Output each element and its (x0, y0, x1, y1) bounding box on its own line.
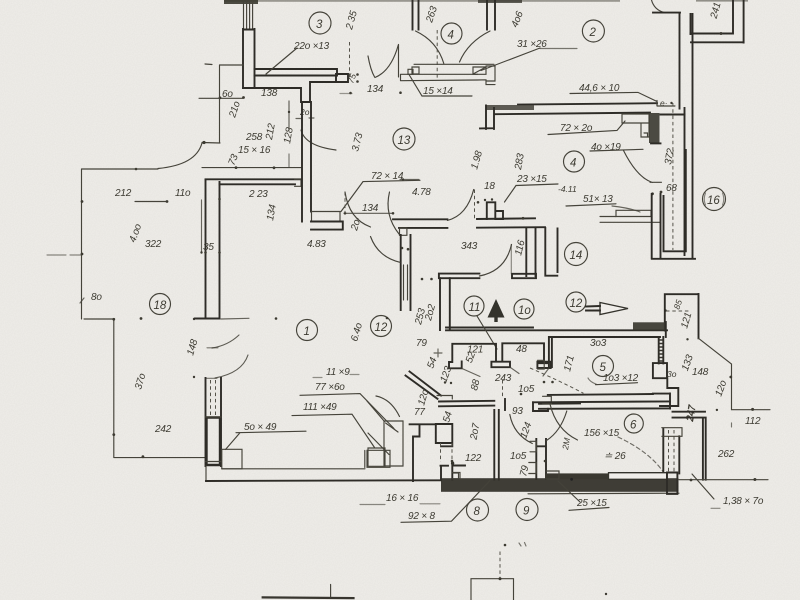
svg-text:1: 1 (304, 326, 310, 338)
dim dots at y93 (340, 91, 402, 94)
wall: room6 east window (662, 428, 682, 474)
room circle 8 (467, 499, 489, 521)
wall: room18 north band (206, 179, 302, 186)
wall: room2 east band (691, 0, 744, 43)
svg-text:68: 68 (666, 183, 677, 194)
door arc hall13 left (345, 192, 371, 227)
svg-text:22o ×13: 22o ×13 (293, 41, 330, 52)
wall: room5 south left steps (533, 402, 548, 411)
svg-text:134: 134 (362, 203, 379, 214)
wall: room2 south double (486, 103, 685, 114)
window 72x14 radiator (311, 212, 343, 230)
room circle 12 right (566, 292, 586, 312)
room circle 16 (703, 188, 726, 211)
boxes in rooms 8/9 (453, 471, 560, 479)
wall: thick vertical x302-311 (302, 102, 311, 222)
svg-text:1o5: 1o5 (510, 451, 527, 462)
terrace boundary (686, 338, 770, 427)
flue lines top (244, 0, 253, 29)
bottom wall right end piece (667, 473, 677, 494)
door leaf room4 south (474, 190, 476, 220)
svg-text:138: 138 (261, 88, 278, 99)
bottom wall outer line (206, 479, 441, 482)
bottom wall dark band (441, 478, 679, 494)
wall: room9 east w/ notches (529, 439, 546, 479)
window sill room4 top (401, 64, 496, 84)
room circle 5 (593, 356, 614, 377)
room circle 4 mid (564, 151, 585, 172)
chamfer diagonal wall (406, 372, 442, 399)
dashed dim line x673 (651, 103, 673, 250)
dim line 4.78 (400, 178, 419, 180)
window pillar box SW (368, 421, 403, 466)
svg-text:15 ×14: 15 ×14 (423, 86, 453, 97)
wall: step box right of room3 (336, 74, 348, 82)
dots row1 (275, 317, 389, 320)
dimension corner tick x219 (205, 64, 243, 143)
door arc room4 east (624, 151, 662, 183)
room circle 10 (514, 299, 534, 319)
underline 23x15 + leader (505, 184, 559, 202)
wall: room5 south double (533, 394, 670, 402)
svg-text:14: 14 (570, 250, 583, 262)
svg-text:4: 4 (570, 158, 576, 170)
window box 2 bottom (367, 450, 390, 467)
centerline dashed room4 window (436, 30, 438, 80)
footer box (471, 552, 514, 600)
underline 50x49 + leader (226, 431, 307, 449)
bottom wall inner line (222, 451, 365, 469)
step e mark (657, 98, 675, 108)
svg-text:93: 93 (512, 406, 523, 417)
svg-text:48: 48 (516, 344, 527, 355)
door dashes room7 (441, 443, 453, 462)
svg-text:8o: 8o (91, 292, 102, 303)
door arc hall-room5 (550, 404, 578, 440)
svg-text:77 ×6o: 77 ×6o (315, 382, 345, 393)
wall: pillar hall13 (477, 198, 525, 219)
wall: room5 west double (538, 337, 552, 369)
svg-text:1o: 1o (518, 305, 531, 317)
dashes y255 (47, 254, 81, 256)
wall: NE corner arc (652, 0, 665, 13)
underline and leader 44.6x10 (570, 92, 657, 105)
svg-text:92 × 8: 92 × 8 (408, 511, 436, 522)
svg-text:-4.11: -4.11 (558, 184, 577, 194)
underline 40x19 (590, 149, 643, 151)
door arc hall14 (479, 245, 511, 277)
dim line left of wall (200, 200, 202, 254)
svg-text:11: 11 (469, 302, 481, 314)
wall: room1 west window lower (206, 378, 222, 466)
door leaf hall13 left (344, 192, 346, 213)
leader 31x26 (481, 48, 577, 71)
svg-text:3: 3 (316, 19, 323, 31)
svg-text:≐ 26: ≐ 26 (604, 451, 626, 462)
svg-text:23 ×15: 23 ×15 (516, 174, 547, 185)
closet2 walls (502, 343, 550, 368)
svg-text:9: 9 (523, 506, 530, 518)
top scan edge smear (224, 0, 748, 4)
svg-text:35: 35 (203, 242, 214, 253)
room circle 14 (565, 243, 588, 266)
door stub and arc hall9 (503, 380, 533, 444)
wall: pillar right of window (649, 113, 661, 143)
leader 138x70 (692, 474, 720, 508)
wall: hall south (closet row top) (446, 328, 667, 338)
door arc room13 top (301, 130, 336, 150)
wall: stub below room2 left end (480, 106, 494, 130)
svg-text:112: 112 (745, 416, 761, 427)
underline 72x20 (548, 121, 625, 135)
wall: room7 left low (441, 462, 466, 480)
window 50x49 box (222, 449, 242, 469)
terrace south line (679, 478, 768, 481)
door arc room6 (547, 411, 567, 441)
svg-text:3o: 3o (667, 369, 677, 379)
svg-text:1,38 × 7o: 1,38 × 7o (723, 496, 764, 507)
wall: NE dark band (633, 322, 666, 337)
room circle 3 (309, 12, 331, 34)
room circle 11 (464, 296, 484, 316)
svg-text:2 23: 2 23 (248, 189, 268, 200)
wall: corridor band vestibule (437, 396, 494, 407)
wall: room18 west boundary (84, 317, 206, 458)
svg-text:e·: e· (660, 98, 668, 108)
room circle 12 left (371, 316, 392, 337)
balcony16 walls (652, 150, 695, 259)
wall: room8/9 divider (494, 410, 499, 480)
svg-text:16: 16 (707, 195, 720, 207)
closet middle foot (491, 362, 510, 368)
paper noise (0, 0, 1, 1)
room circle 4 top (441, 23, 462, 44)
room circle 13 (393, 128, 415, 150)
wall: hall south band right (539, 396, 670, 409)
leader 15x14 (409, 75, 472, 97)
wall: SW corner to bottom band (205, 466, 207, 481)
svg-text:122: 122 (465, 453, 482, 464)
dimension line 60/138 (199, 96, 245, 99)
svg-text:11o: 11o (175, 188, 191, 199)
svg-text:12: 12 (570, 298, 583, 310)
wall: room3 west thick bar (243, 29, 255, 88)
door arc hall13 right (388, 192, 399, 234)
svg-text:16 × 16: 16 × 16 (386, 493, 419, 504)
svg-text:322: 322 (145, 239, 162, 250)
underline 77x60 + leader (300, 394, 394, 429)
svg-text:5o × 49: 5o × 49 (244, 422, 277, 433)
text 20 with ticks (296, 107, 314, 119)
wall: NE low band (673, 412, 706, 480)
wall: room4 north stub right (487, 0, 495, 30)
dots pair hall (421, 278, 433, 281)
svg-text:258: 258 (245, 132, 263, 143)
door arc second leaf (368, 56, 375, 77)
plus tick (434, 349, 452, 384)
dim vline x289 (288, 101, 290, 130)
svg-text:4.78: 4.78 (412, 187, 431, 198)
door arcs room18 door (206, 335, 248, 378)
dot hall (520, 393, 523, 396)
svg-text:12: 12 (375, 322, 388, 334)
room circle 1 (297, 320, 318, 341)
door arc room3 east (375, 45, 398, 78)
svg-text:4: 4 (448, 30, 454, 42)
stray marks bottom (504, 543, 608, 596)
wall: room4 north stub left (413, 0, 419, 30)
room circle 18 (150, 294, 171, 315)
door arc room4 south (447, 190, 473, 221)
underline 51x13 + leader (566, 204, 640, 212)
svg-text:2o: 2o (299, 107, 310, 117)
svg-text:134: 134 (367, 84, 384, 95)
svg-text:11 ×9: 11 ×9 (326, 367, 350, 378)
svg-text:3o3: 3o3 (590, 338, 607, 349)
box under corridor wall left end (400, 228, 407, 235)
dim line 223 (202, 154, 301, 169)
chamfer diagonal lower (367, 401, 385, 422)
footer dark line (262, 585, 355, 599)
door arc hall13 lower (371, 237, 410, 263)
wall: room1 east window wall upper (401, 235, 411, 310)
wall: pillar vest (436, 424, 453, 446)
entry arrow (586, 303, 628, 315)
door leaf room3 east (398, 45, 400, 78)
svg-text:8: 8 (474, 506, 481, 518)
hall14 north wall double (393, 218, 545, 228)
underline 103x12 (588, 378, 638, 385)
svg-text:25 ×15: 25 ×15 (576, 498, 607, 509)
underline 92x8 + leader (401, 481, 490, 523)
tree symbol (477, 299, 505, 349)
wall: pillar room5 SE (653, 363, 667, 378)
svg-text:343: 343 (461, 241, 478, 252)
attached box left (368, 448, 385, 466)
dots on band (451, 460, 573, 481)
door arc room4 left (416, 31, 444, 64)
curve wall corner room18 top (135, 141, 220, 170)
svg-text:18: 18 (154, 300, 167, 312)
svg-text:6o: 6o (222, 89, 233, 100)
svg-text:79: 79 (416, 338, 427, 349)
wall: room5 SE step (660, 378, 678, 406)
dashed jamb line x349 (350, 42, 359, 83)
dim line door13 (344, 212, 395, 215)
wall: room6 ne corner (653, 393, 670, 408)
canopy box (665, 294, 699, 338)
svg-text:6: 6 (630, 420, 637, 432)
wall: corridor14 west double (512, 228, 536, 278)
wall: vest step left (410, 424, 436, 481)
svg-text:212: 212 (114, 188, 132, 199)
wall: east corridor double (685, 14, 693, 259)
dot near 85 (664, 309, 667, 312)
vestibule door arc (376, 396, 400, 417)
text 16x16 (360, 493, 440, 505)
wall: left boundary x82 (80, 169, 135, 319)
svg-text:13: 13 (398, 135, 411, 147)
window hatch room5 east (659, 337, 664, 363)
closet1 walls (449, 344, 496, 369)
underline 72x14 + leader (341, 180, 420, 211)
svg-text:156 ×15: 156 ×15 (584, 428, 620, 439)
door arc room4 right (460, 31, 491, 62)
underline 25x15 + leader (558, 481, 609, 510)
leader 156x15 dashed (618, 437, 664, 473)
wall: room1 west double upper (195, 180, 249, 319)
svg-text:15 × 16: 15 × 16 (238, 145, 271, 156)
window sill room6 white box (545, 473, 667, 480)
wall: room3 south double (255, 69, 338, 76)
svg-text:18: 18 (484, 181, 495, 192)
dim line 110 (135, 200, 168, 203)
svg-text:77: 77 (414, 407, 425, 418)
svg-text:2: 2 (589, 27, 597, 39)
wall: pier x651-660 (652, 194, 661, 259)
wall: corridor line below room3 (243, 82, 336, 102)
wall: hall13 south-west band (439, 274, 480, 279)
door arc room5 dashed (530, 368, 584, 393)
text 11x9 (313, 367, 359, 378)
underline 111x49 + leader (292, 414, 375, 447)
svg-text:242: 242 (154, 424, 172, 435)
wall: corridor14 east double (545, 228, 557, 276)
wall: below hall13 double down (440, 278, 450, 330)
window 40x19 boxes (622, 114, 649, 137)
leader 220x13 (266, 48, 297, 74)
closet leader dashes (462, 367, 549, 376)
wall: room2 north/east (653, 13, 691, 109)
svg-text:4.83: 4.83 (307, 239, 326, 250)
svg-text:111 ×49: 111 ×49 (303, 402, 337, 413)
svg-text:262: 262 (717, 449, 735, 460)
svg-text:148: 148 (692, 367, 709, 378)
room circle 6 (624, 414, 643, 433)
window 51x13 sill room4 SE (600, 210, 660, 222)
room circle 2 (582, 20, 604, 42)
room circle 9 (516, 499, 538, 521)
svg-text:51× 13: 51× 13 (583, 194, 613, 205)
